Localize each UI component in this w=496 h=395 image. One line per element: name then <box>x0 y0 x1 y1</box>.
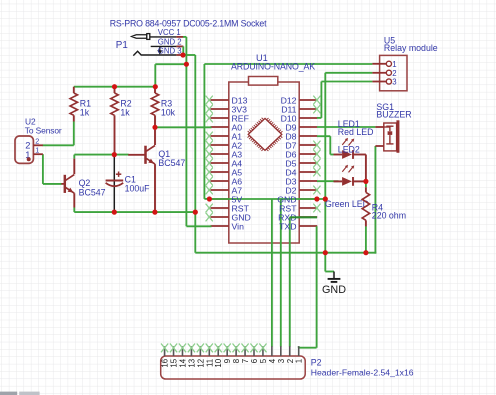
U1 left pin A3 stub <box>211 153 229 155</box>
svg-text:13: 13 <box>187 358 196 367</box>
junction P1 GND <box>180 52 185 57</box>
LED2 Green LED <box>325 144 369 209</box>
svg-text:3: 3 <box>277 358 286 363</box>
svg-text:Red LED: Red LED <box>338 127 374 137</box>
U1 left pin A2 label <box>232 140 243 150</box>
resistor R2 1k <box>111 87 132 155</box>
LED1 Red LED <box>334 119 374 159</box>
window fragment bars <box>0 392 40 395</box>
P2 pin 6 stub <box>250 346 259 363</box>
U1 left pin 3V3 stub <box>211 108 229 110</box>
svg-text:Relay module: Relay module <box>384 43 438 53</box>
P2 pin 5 stub <box>259 346 268 363</box>
P2 pin 13 stub <box>187 346 196 367</box>
P2 pin 6 X mark <box>250 344 257 353</box>
U1 left pin 5V stub <box>211 198 229 200</box>
svg-text:Vin: Vin <box>232 221 245 231</box>
capacitor C1 100uF <box>106 155 151 213</box>
U1 left pin A2 stub <box>211 144 229 146</box>
P2 pin 11 stub <box>205 346 214 367</box>
wire VCC from P1.1 down to VCC junction <box>183 37 186 64</box>
P1 labels <box>110 18 267 55</box>
U1 left pin REF stub <box>211 117 229 119</box>
connector U2 To Sensor <box>15 117 62 164</box>
P2 pin 3 stub <box>277 346 286 363</box>
U1 right pin D6 stub <box>299 153 317 155</box>
junction R4 bottom <box>363 250 368 255</box>
U1 right pin D11 stub <box>299 108 317 110</box>
transistor Q1 BC547 <box>128 130 185 210</box>
wire U2 pin1 to Q2 base <box>43 154 62 184</box>
P2 pin 15 X mark <box>170 344 177 353</box>
P2 pin 4 stub <box>268 346 277 363</box>
U1 chip diamond icon <box>248 118 283 151</box>
wire R1 bottom to U2 pin2 <box>43 121 74 145</box>
U1 right pin D5 stub <box>299 162 317 164</box>
U1 left pin A4 stub <box>211 162 229 164</box>
svg-text:GND: GND <box>322 284 346 296</box>
svg-text:1: 1 <box>392 60 396 69</box>
connector P1 DC005 barrel jack symbol <box>132 34 177 56</box>
U1 right pin D7 label <box>285 140 296 150</box>
wire RXD to P2 pin2 <box>290 217 317 346</box>
svg-text:LED2: LED2 <box>338 144 360 154</box>
P2 pin 16 stub <box>161 346 170 367</box>
U1 right pin D8 stub <box>299 135 317 137</box>
P2 pin 10 stub <box>214 346 223 367</box>
U1 right pin TXD stub <box>299 225 317 227</box>
P1 pin 2 GND stub <box>176 45 183 47</box>
U1 right pin RST label <box>279 203 297 213</box>
svg-text:10k: 10k <box>161 108 176 118</box>
wire VCC down to Vin <box>186 64 211 226</box>
svg-text:3: 3 <box>392 78 396 87</box>
U1 left pin A5 label <box>232 167 243 177</box>
svg-text:220 ohm: 220 ohm <box>372 210 406 220</box>
P2 pin 9 X mark <box>224 344 231 353</box>
resistor R3 10k <box>151 87 175 128</box>
svg-text:100uF: 100uF <box>125 183 151 193</box>
svg-text:16: 16 <box>161 358 170 367</box>
svg-text:2: 2 <box>25 141 30 151</box>
svg-text:10: 10 <box>214 358 223 367</box>
P2 pin 14 X mark <box>179 344 186 353</box>
U1 right pin D10 stub <box>299 117 317 119</box>
svg-text:1k: 1k <box>80 108 90 118</box>
P2 pin 1 stub <box>295 346 304 363</box>
U1 right pin GND stub <box>299 198 317 200</box>
P2 pin 12 X mark <box>197 344 204 353</box>
U1 right pin D7 stub <box>299 144 317 146</box>
U1 right pin RXD stub <box>299 216 317 218</box>
wire TXD to P2 pin1 <box>299 226 317 347</box>
U1 right pin D9 stub <box>299 126 317 128</box>
op-amp U1 ARDUINO-NANO_AK body <box>229 77 299 244</box>
U1 left pin A7 label <box>232 185 243 195</box>
junction R2 top <box>112 84 117 89</box>
U1 left pin A7 stub <box>211 189 229 191</box>
svg-text:BC547: BC547 <box>79 187 106 197</box>
svg-text:9: 9 <box>223 358 232 363</box>
P2 pin 15 stub <box>170 346 179 367</box>
U1 left pin 5V label <box>232 194 243 204</box>
wire LED junction to R4 top <box>365 181 367 187</box>
U1 left pin A0 label <box>232 122 243 132</box>
U1 left pin A0 stub <box>211 126 229 128</box>
U1 left pin Vin stub <box>211 225 229 227</box>
buzzer SG1 <box>375 102 411 153</box>
wire 5V net to relay pin1 <box>204 64 372 199</box>
junction GND right vertical <box>323 196 328 201</box>
U1 left pin A6 stub <box>211 180 229 182</box>
svg-text:12: 12 <box>196 359 205 368</box>
U1 left pin A1 stub <box>211 135 229 137</box>
wire VCC junction to resistor top rail <box>155 64 186 87</box>
wire to P2 pin3 <box>280 199 282 347</box>
svg-text:BUZZER: BUZZER <box>376 110 411 120</box>
svg-text:4: 4 <box>268 358 277 363</box>
svg-text:2: 2 <box>392 69 396 78</box>
svg-text:2: 2 <box>35 137 39 146</box>
junction LED cathodes R4 <box>363 179 368 184</box>
wire D3 to LED2 anode <box>317 180 339 182</box>
U1 right pin D12 label <box>281 95 297 105</box>
svg-text:RS-PRO 884-0957 DC005-2.1MM So: RS-PRO 884-0957 DC005-2.1MM Socket <box>110 18 267 28</box>
wire LED1 cathode down <box>365 155 367 182</box>
svg-text:ARDUINO-NANO_AK: ARDUINO-NANO_AK <box>231 62 315 72</box>
U1 right pin D6 label <box>285 149 296 159</box>
svg-text:P1: P1 <box>116 40 128 51</box>
wire relay pin2 to GND vertical <box>325 73 372 253</box>
U1 left pin A1 label <box>232 131 243 141</box>
junction GND right stub <box>314 196 319 201</box>
junction R3 bottom node A0 <box>152 125 157 130</box>
U1 right pin D3 label <box>285 176 296 186</box>
resistor R1 1k <box>70 87 91 122</box>
U1 right pin D9 label <box>285 122 296 132</box>
U1 left pin D13 stub <box>211 99 229 101</box>
U1 left pin REF label <box>232 113 249 123</box>
svg-text:Header-Female-2.54_1x16: Header-Female-2.54_1x16 <box>311 368 414 378</box>
svg-text:TXD: TXD <box>279 221 296 231</box>
P2 pin 14 stub <box>178 346 187 367</box>
P2 pin 9 stub <box>223 346 232 363</box>
U1 right pin D12 stub <box>299 99 317 101</box>
U1 left pin A5 stub <box>211 171 229 173</box>
U1 left pin GND stub <box>211 216 229 218</box>
junction Q1 emitter <box>152 210 157 215</box>
wire D8 to LED1 anode <box>317 136 334 154</box>
wire Q2 collector rail to Q1 base <box>74 155 128 159</box>
wire GND3 to ground rail drop <box>183 55 195 253</box>
wire relay pin3 to D10 <box>317 82 372 118</box>
U1 right pin D4 label <box>285 167 296 177</box>
svg-text:Green LED: Green LED <box>325 199 369 209</box>
no-connect X marks on U1 pins <box>206 96 321 222</box>
P2 pin 10 X mark <box>215 344 222 353</box>
U1 right pin D4 stub <box>299 171 317 173</box>
U1 right pin D10 label <box>281 113 297 123</box>
U1 left pin RST label <box>232 203 250 213</box>
svg-text:15: 15 <box>170 358 179 367</box>
U1 left pin D13 label <box>232 95 248 105</box>
U1 left pin 3V3 label <box>232 104 248 114</box>
junction C1 bottom <box>112 210 117 215</box>
U1 left pin A3 label <box>232 149 243 159</box>
U1 ARDUINO-NANO_AK labels <box>231 53 315 72</box>
wire to P2 pin4 <box>271 199 273 347</box>
svg-text:8: 8 <box>232 358 241 363</box>
wire left ground rail <box>74 208 195 213</box>
svg-text:7: 7 <box>241 359 250 363</box>
relay module U5 <box>372 35 437 90</box>
svg-text:11: 11 <box>205 359 214 367</box>
wire RXD overlay <box>290 216 317 218</box>
P1 pin 3 GND stub <box>176 54 183 56</box>
svg-text:VCC 1: VCC 1 <box>158 28 181 37</box>
junction ground rail / GND symbol <box>323 250 328 255</box>
U1 right pin D5 label <box>285 158 296 168</box>
U1 left pin A4 label <box>232 158 243 168</box>
P1 pin 1 VCC stub <box>176 36 183 38</box>
P2 pin 5 X mark <box>259 344 266 353</box>
ground GND <box>322 253 346 296</box>
U1 left pin A6 label <box>232 176 243 186</box>
junction C1 top <box>112 152 117 157</box>
svg-text:2: 2 <box>286 359 295 363</box>
svg-text:P2: P2 <box>311 357 322 367</box>
svg-text:1: 1 <box>35 146 39 155</box>
U1 left pin GND label <box>232 212 251 222</box>
wire D9 to buzzer pin1 <box>317 126 375 128</box>
wire buzzer pin2 down to ground rail <box>374 146 376 254</box>
U1 left pin RST stub <box>211 207 229 209</box>
transistor Q2 BC547 <box>61 159 105 208</box>
P2 pin 7 stub <box>241 346 250 363</box>
U1 right pin TXD label <box>279 221 296 231</box>
wire resistor top rail <box>74 86 156 88</box>
U1 right pin RXD label <box>278 212 296 222</box>
svg-text:6: 6 <box>250 358 259 363</box>
P2 pin 16 X mark <box>161 344 168 353</box>
junction VCC <box>184 62 189 67</box>
P2 pin 8 stub <box>232 346 241 363</box>
svg-text:1: 1 <box>295 359 304 363</box>
P2 pin 8 X mark <box>233 344 240 353</box>
header P2 Header-Female-2.54_1x16 body <box>161 356 414 379</box>
wire main ground rail <box>195 252 376 254</box>
U1 right pin RST stub <box>299 207 317 209</box>
P2 pin 13 X mark <box>188 344 195 353</box>
svg-text:14: 14 <box>178 358 187 367</box>
junction left rail to GND drop <box>193 210 198 215</box>
P2 pin 2 stub <box>286 346 295 363</box>
wire 5V to GND pins row <box>209 198 325 200</box>
svg-text:1k: 1k <box>120 108 130 118</box>
U1 left pin Vin label <box>232 221 245 231</box>
P2 pin 12 stub <box>196 346 205 367</box>
P2 pin 7 X mark <box>241 344 248 353</box>
junction 5V pin <box>207 196 212 201</box>
U1 right pin D11 label <box>281 104 296 114</box>
wire R4 bottom to ground rail <box>365 226 367 253</box>
U1 right pin GND label <box>277 194 296 204</box>
svg-text:BC547: BC547 <box>158 158 185 168</box>
P2 pin 11 X mark <box>206 344 213 353</box>
svg-text:GND 3: GND 3 <box>158 46 182 55</box>
wire GND2 drop to GND3 <box>182 46 184 55</box>
U1 right pin D3 stub <box>299 180 317 182</box>
U1 right pin D8 label <box>285 131 296 141</box>
resistor R4 220 ohm <box>362 187 406 226</box>
U1 right pin D2 stub <box>299 189 317 191</box>
U1 right pin D2 label <box>285 185 296 195</box>
svg-text:5: 5 <box>259 358 268 363</box>
svg-text:To Sensor: To Sensor <box>25 126 62 136</box>
junction R3 top <box>153 84 158 89</box>
wire A0 to R3 bottom <box>155 126 212 128</box>
